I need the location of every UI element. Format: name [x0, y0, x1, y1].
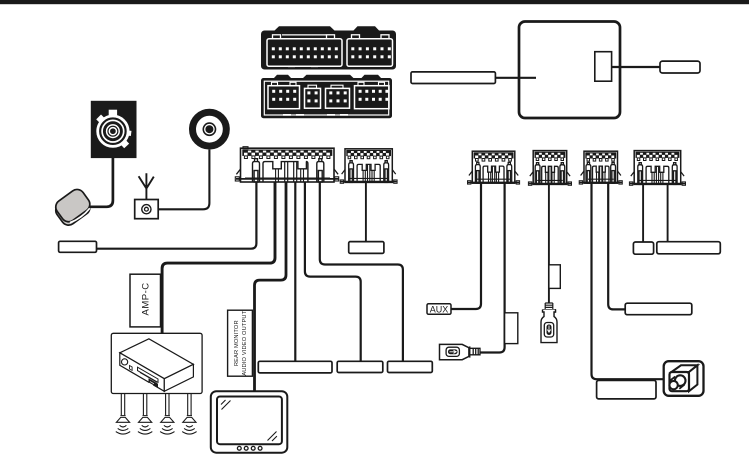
wire C3 to AUX: [451, 183, 481, 309]
wire C1 pin1 to label L1: [96, 182, 256, 249]
rear monitor (TV): [211, 391, 287, 453]
wire from microphone to antenna box: [158, 150, 209, 210]
amplifier unit box: [111, 333, 202, 393]
label L1 (blank callout, far left): [59, 241, 97, 252]
label LA (blank callout): [258, 361, 332, 373]
connector C1 (wide white connector): [235, 147, 339, 182]
label L4 (blank callout on C4 wire): [549, 265, 560, 289]
svg-text:AMP-C: AMP-C: [141, 282, 152, 315]
label L3 (blank tall callout on USB wire): [505, 313, 518, 344]
label L5 (blank callout under camera wire): [597, 380, 656, 399]
connector C4: [528, 151, 571, 186]
wire C3 to USB plug: [480, 183, 505, 352]
wire C1 pin2 to amplifier (AMP-C): [162, 182, 275, 333]
GPS antenna module (grey rounded diamond): [53, 186, 94, 228]
label LB (blank callout): [337, 361, 383, 372]
top border bar: [0, 0, 749, 4]
microphone (ring component): [193, 112, 227, 146]
label L6 (blank callout): [625, 303, 692, 315]
head unit outline box: [519, 22, 620, 119]
USB plug (horizontal): [440, 344, 481, 359]
svg-text:AUX: AUX: [430, 305, 449, 315]
connector BC2 (multi-block black harness connector, bottom): [261, 75, 392, 118]
connector C5: [579, 151, 622, 184]
label L7 (small blank callout): [633, 242, 653, 254]
wire C6 to label L7: [642, 185, 644, 243]
internal connector slot of head unit: [595, 52, 612, 81]
wire from GPS plate to GPS antenna module: [90, 158, 113, 207]
connector C6: [629, 151, 685, 186]
REAR MONITOR / AUDIO VIDEO OUTPUT label box: [228, 310, 253, 376]
svg-text:REAR MONITOR: REAR MONITOR: [234, 320, 240, 366]
GPS antenna plate (black square with bayonet connector): [91, 101, 137, 158]
rear camera icon box: [664, 361, 704, 396]
connector C2: [340, 149, 397, 183]
label L2 (blank callout under C2): [349, 242, 384, 254]
connector C3: [468, 151, 520, 184]
label L8 (blank callout): [657, 242, 721, 254]
wire C1 pin5 to label LB: [305, 182, 361, 362]
label L13 (blank callout, right of head unit): [660, 61, 700, 73]
connector BC1 (16-pin black harness connector, top): [261, 26, 396, 69]
wire from label L12 into head unit: [495, 77, 536, 79]
svg-text:AUDIO VIDEO OUTPUT: AUDIO VIDEO OUTPUT: [242, 310, 248, 375]
ultrasonic sensors under amplifier: [116, 394, 197, 434]
label L12 (blank callout, left of head unit): [411, 72, 495, 84]
wire C6 to label L8: [667, 185, 669, 242]
label LC (blank callout): [388, 361, 433, 372]
wire C1 pin6 to label LC: [320, 182, 403, 362]
radio antenna symbol: [139, 173, 154, 199]
wire C5 to rear camera: [592, 183, 664, 379]
USB plug (vertical): [541, 303, 557, 343]
wire C1 pin4 to label LA: [294, 182, 296, 362]
wire C1 pin3 to rear monitor: [255, 182, 287, 392]
wire C4 to USB plug (vertical): [548, 185, 550, 303]
wire from head unit slot to label L13: [612, 66, 660, 68]
AUX label box: [427, 304, 451, 315]
wire C5 to label L6: [608, 183, 625, 309]
wire C2 to label L2: [365, 183, 367, 242]
AMP-C label box: [130, 274, 161, 327]
antenna plug box: [135, 200, 159, 219]
